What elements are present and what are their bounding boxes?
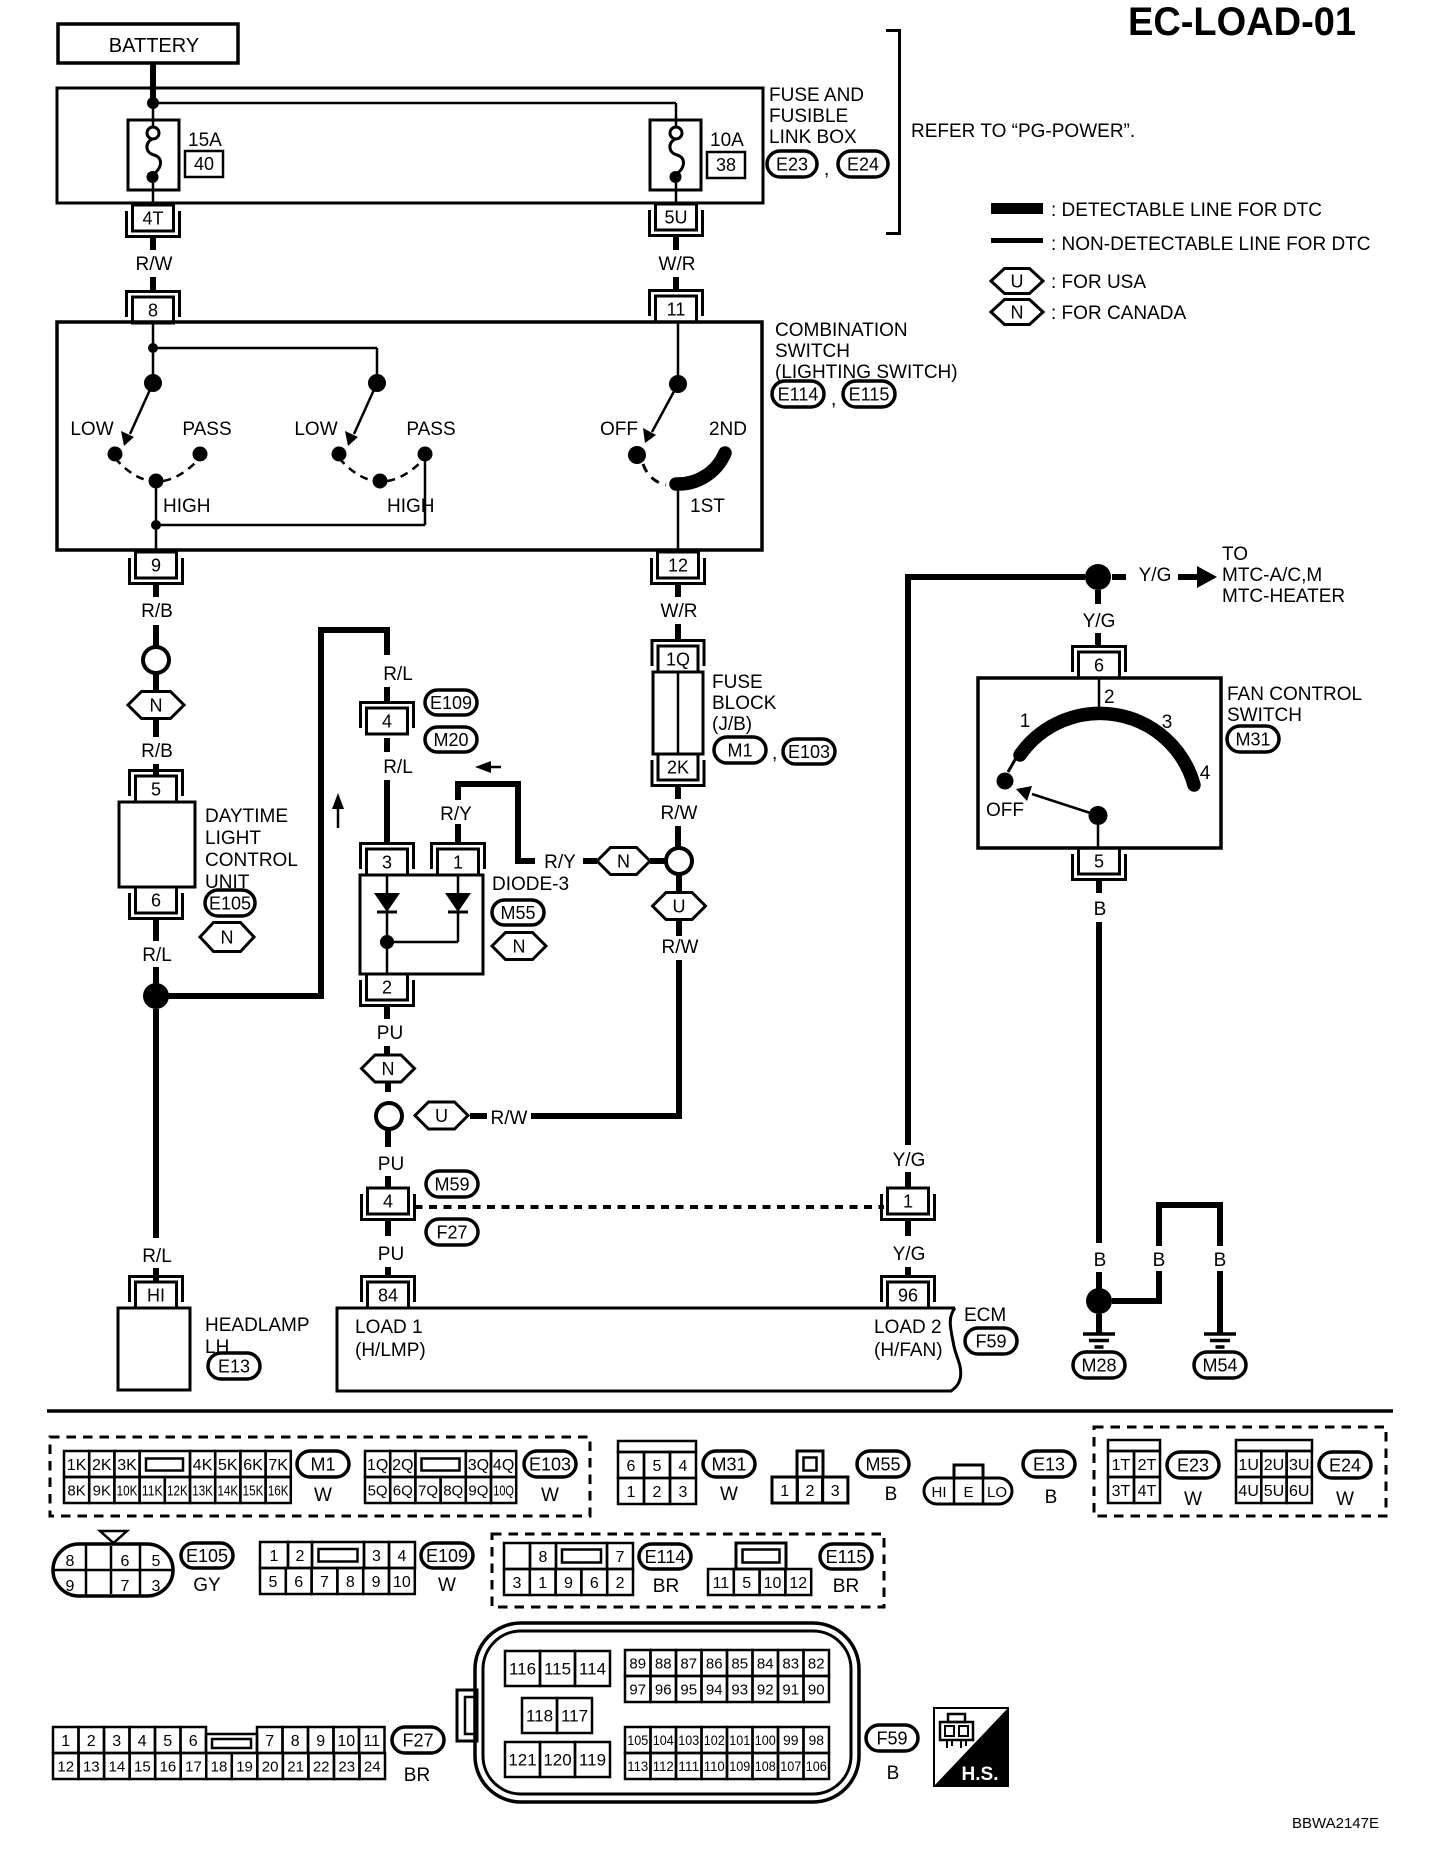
switch 1 arm arrow <box>121 383 153 446</box>
label PASS 1 <box>182 419 231 440</box>
svg-text:6K: 6K <box>243 1457 263 1474</box>
connector ref E114 face <box>639 1544 691 1597</box>
svg-text:LOW: LOW <box>294 419 337 440</box>
switch 2 HIGH contact <box>373 474 388 489</box>
svg-text:R/W: R/W <box>662 937 699 958</box>
svg-text:8: 8 <box>346 1574 355 1591</box>
label PASS 2 <box>406 419 455 440</box>
pin 4 M20-E109 <box>361 703 414 735</box>
svg-text:2K: 2K <box>92 1457 112 1474</box>
svg-text:12K: 12K <box>167 1482 188 1499</box>
svg-text:3: 3 <box>382 853 392 873</box>
svg-text:4Q: 4Q <box>493 1457 514 1474</box>
svg-text:8: 8 <box>66 1553 75 1570</box>
ground ref M28 <box>1073 1352 1125 1378</box>
connector ref M20 <box>425 727 477 752</box>
svg-text:2: 2 <box>1104 687 1115 708</box>
svg-text:OFF: OFF <box>986 800 1024 821</box>
pin 5 <box>130 771 183 803</box>
connector ref E115 face <box>820 1544 872 1597</box>
svg-text:BLOCK: BLOCK <box>712 693 777 714</box>
wire R/W corner to U hexagon splice <box>470 1108 679 1129</box>
svg-text:105: 105 <box>627 1732 648 1748</box>
wire PU diode pin 2 down <box>377 1006 403 1056</box>
daytime light control unit box <box>119 802 195 887</box>
connector face E109 <box>260 1542 415 1594</box>
label HIGH 1 <box>163 496 211 517</box>
svg-text:85: 85 <box>731 1655 748 1672</box>
connector face F59 ECM <box>457 1623 859 1802</box>
connector ref F59 face <box>866 1725 918 1784</box>
wire R/W down <box>662 920 699 1113</box>
connector face E24 <box>1236 1440 1312 1503</box>
svg-text:BR: BR <box>653 1576 679 1597</box>
svg-text:MTC-HEATER: MTC-HEATER <box>1222 586 1345 607</box>
svg-text:B: B <box>1094 899 1107 920</box>
fuse 10A 38 <box>650 120 701 204</box>
wire R/W 2K to splice <box>661 786 698 850</box>
svg-text:R/L: R/L <box>383 757 413 778</box>
combination switch box <box>57 322 762 550</box>
svg-text:9: 9 <box>66 1578 75 1595</box>
svg-text:4U: 4U <box>1238 1483 1258 1500</box>
svg-text:121: 121 <box>508 1751 536 1770</box>
svg-text:91: 91 <box>782 1681 799 1698</box>
dashed box E23 E24 connectors <box>1094 1427 1386 1516</box>
svg-text:118: 118 <box>526 1707 553 1726</box>
svg-text:10: 10 <box>764 1575 782 1592</box>
node R/L junction <box>143 983 169 1009</box>
label 3 <box>1162 712 1173 733</box>
diode right <box>445 875 471 942</box>
svg-text:17: 17 <box>185 1758 202 1775</box>
svg-text:E109: E109 <box>426 1546 468 1566</box>
connector ref E105 <box>205 890 255 916</box>
wire Y/G pin 1 to pin 96 <box>893 1220 926 1278</box>
label fuse and fusible link box <box>769 85 864 148</box>
svg-text:4T: 4T <box>1138 1483 1157 1500</box>
connector face E13 headlamp <box>924 1465 1012 1504</box>
svg-text:109: 109 <box>729 1758 750 1774</box>
connector ref E13 face <box>1023 1451 1075 1508</box>
connector ref E24 face <box>1319 1452 1371 1510</box>
dashed box E114 E115 connectors <box>492 1534 884 1607</box>
svg-text:R/Y: R/Y <box>440 804 472 825</box>
bracket refer to PG-POWER <box>886 31 900 234</box>
svg-text:6: 6 <box>151 891 161 911</box>
svg-text:13: 13 <box>83 1758 100 1775</box>
svg-text:,: , <box>824 159 829 180</box>
svg-text:23: 23 <box>338 1758 355 1775</box>
svg-text:6U: 6U <box>1289 1483 1309 1500</box>
svg-text:97: 97 <box>629 1681 646 1698</box>
svg-text:U: U <box>673 897 686 917</box>
svg-text:6: 6 <box>590 1575 599 1592</box>
svg-text:2K: 2K <box>667 758 689 778</box>
svg-text:2: 2 <box>87 1733 96 1750</box>
svg-text:M54: M54 <box>1202 1356 1237 1376</box>
lighting switch OFF contact <box>628 446 646 464</box>
svg-text:92: 92 <box>757 1681 774 1698</box>
legend for USA text <box>1051 272 1146 293</box>
connector ref E103 face <box>524 1451 576 1506</box>
svg-text:103: 103 <box>678 1732 699 1748</box>
svg-text:2Q: 2Q <box>392 1457 413 1474</box>
node Y/G junction <box>1085 564 1111 590</box>
pin 8 <box>127 292 180 324</box>
svg-text:,: , <box>831 389 836 410</box>
switch 2 arm arrow <box>345 383 377 446</box>
svg-text:Y/G: Y/G <box>893 1150 926 1171</box>
label HIGH 2 <box>387 496 435 517</box>
connector ref M55 face <box>857 1451 909 1505</box>
wire splice to U hexagon <box>676 874 682 892</box>
svg-text:11K: 11K <box>142 1482 163 1499</box>
svg-text:HI: HI <box>147 1286 165 1306</box>
svg-text:M1: M1 <box>727 741 752 761</box>
svg-text:(H/FAN): (H/FAN) <box>874 1340 943 1361</box>
connector ref M55 <box>492 900 544 925</box>
svg-text:1: 1 <box>538 1575 547 1592</box>
connector ref E23 face <box>1167 1452 1219 1510</box>
svg-text:2ND: 2ND <box>709 419 747 440</box>
svg-text:84: 84 <box>757 1655 774 1672</box>
node battery feed junction <box>147 97 159 109</box>
svg-text:2: 2 <box>805 1483 814 1500</box>
connector ref E109 face <box>421 1543 473 1596</box>
wire HIGH to pin 9 <box>155 481 158 552</box>
svg-text:W/R: W/R <box>661 601 698 622</box>
diode-3 box M55 <box>360 875 483 974</box>
hexagon U usa R/W <box>653 893 706 920</box>
splice R/W R/Y <box>666 848 692 874</box>
svg-text:CONTROL: CONTROL <box>205 850 298 871</box>
wire splice to N <box>153 674 159 691</box>
svg-text:PU: PU <box>378 1154 404 1175</box>
connector ref E24 <box>824 151 888 180</box>
svg-text:R/B: R/B <box>141 741 173 762</box>
svg-text:E13: E13 <box>1033 1455 1065 1475</box>
svg-text:22: 22 <box>313 1758 330 1775</box>
pin 6 fan switch <box>1073 647 1126 679</box>
svg-text:W: W <box>720 1484 738 1505</box>
svg-text:113: 113 <box>627 1758 648 1774</box>
connector face M31 <box>618 1441 696 1504</box>
svg-text:1: 1 <box>627 1484 636 1501</box>
svg-text:F27: F27 <box>402 1731 433 1751</box>
svg-text:EC-LOAD-01: EC-LOAD-01 <box>1128 0 1356 44</box>
label DIODE-3 <box>492 874 569 895</box>
node high junction <box>151 520 161 530</box>
svg-text:9K: 9K <box>93 1482 111 1499</box>
svg-text:99: 99 <box>783 1732 799 1748</box>
label 1ST <box>690 496 725 517</box>
pin 6 <box>130 887 183 919</box>
svg-text:2: 2 <box>616 1575 625 1592</box>
connector face E103 <box>365 1451 516 1503</box>
svg-text:107: 107 <box>780 1758 801 1774</box>
label 38 <box>707 152 745 178</box>
connector ref E103 <box>772 739 835 764</box>
svg-text:16K: 16K <box>268 1482 289 1499</box>
svg-text:89: 89 <box>629 1655 646 1672</box>
svg-text:24: 24 <box>364 1758 381 1775</box>
svg-text:N: N <box>617 852 630 872</box>
connector face M1 <box>64 1451 291 1503</box>
connector ref E23 <box>767 151 817 177</box>
svg-text:H.S.: H.S. <box>962 1764 999 1785</box>
svg-text:115: 115 <box>544 1660 571 1679</box>
wire R/B pin 9 to splice <box>141 584 173 647</box>
svg-text:: FOR CANADA: : FOR CANADA <box>1051 303 1186 324</box>
fan switch contact arc <box>1020 713 1194 785</box>
connector ref M31 <box>1227 726 1279 752</box>
switch 2 wiper arc <box>339 458 425 482</box>
svg-text:101: 101 <box>729 1732 750 1748</box>
svg-text:OFF: OFF <box>600 419 638 440</box>
svg-text:94: 94 <box>706 1681 723 1698</box>
svg-text:9: 9 <box>316 1733 325 1750</box>
svg-text:6Q: 6Q <box>393 1482 413 1499</box>
svg-text:2: 2 <box>382 978 392 998</box>
value 10A <box>710 130 744 151</box>
svg-text:E24: E24 <box>1329 1456 1361 1476</box>
hexagon N canada R/B <box>128 692 184 719</box>
svg-text:1: 1 <box>453 853 463 873</box>
wire R/W 4T to 8 <box>136 237 173 293</box>
svg-text:2T: 2T <box>1138 1457 1157 1474</box>
svg-text:7Q: 7Q <box>418 1482 438 1499</box>
svg-text:M55: M55 <box>865 1455 900 1475</box>
svg-text:1Q: 1Q <box>666 650 690 670</box>
svg-text:116: 116 <box>509 1660 536 1679</box>
svg-text:83: 83 <box>782 1655 799 1672</box>
svg-text:R/W: R/W <box>491 1108 528 1129</box>
svg-text:R/L: R/L <box>142 1246 172 1267</box>
label headlamp LH <box>205 1315 310 1358</box>
svg-text:DIODE-3: DIODE-3 <box>492 874 569 895</box>
dashed Y/G to arrow <box>1112 565 1198 586</box>
label fuse block J/B <box>712 672 777 735</box>
label combination switch <box>775 320 958 383</box>
svg-text:M28: M28 <box>1081 1356 1116 1376</box>
svg-text:PU: PU <box>378 1244 404 1265</box>
pin 1 Y/G <box>882 1188 935 1220</box>
svg-text:E114: E114 <box>645 1547 686 1567</box>
svg-text:16: 16 <box>160 1758 177 1775</box>
svg-text:LO: LO <box>987 1484 1007 1501</box>
node switch feed junction <box>148 343 158 353</box>
svg-text:Y/G: Y/G <box>1139 565 1172 586</box>
label ECM <box>964 1305 1006 1326</box>
svg-text:LIGHT: LIGHT <box>205 828 261 849</box>
svg-text:10A: 10A <box>710 130 744 151</box>
wire R/L pin 6 to junction <box>142 919 172 990</box>
svg-text:B: B <box>1153 1250 1166 1271</box>
svg-text:8Q: 8Q <box>443 1482 463 1499</box>
svg-text:E23: E23 <box>1177 1456 1209 1476</box>
svg-text:15K: 15K <box>243 1482 264 1499</box>
label LOW 2 <box>294 419 337 440</box>
label 40 <box>185 151 223 177</box>
svg-text:1: 1 <box>780 1483 789 1500</box>
wire R/B N to pin 5 <box>141 720 173 777</box>
svg-text:2: 2 <box>296 1548 305 1565</box>
svg-text:4: 4 <box>383 1192 393 1212</box>
fan OFF contact <box>997 773 1014 790</box>
legend detectable text <box>1051 200 1322 221</box>
svg-text:1: 1 <box>61 1733 70 1750</box>
label LOAD 2 H/FAN <box>874 1317 943 1361</box>
svg-text:100: 100 <box>755 1732 776 1748</box>
harness view H.S. mark <box>934 1708 1008 1786</box>
svg-text:98: 98 <box>808 1732 824 1748</box>
svg-text:: DETECTABLE LINE FOR DTC: : DETECTABLE LINE FOR DTC <box>1051 200 1322 221</box>
hexagon N canada R/Y <box>597 848 650 875</box>
svg-text:R/W: R/W <box>136 254 173 275</box>
svg-text:N: N <box>1011 303 1024 323</box>
svg-text:110: 110 <box>704 1758 725 1774</box>
svg-text:7: 7 <box>265 1733 274 1750</box>
hexagon U usa splice <box>415 1102 468 1129</box>
pin HI <box>130 1277 183 1309</box>
hexagon N canada M55 <box>492 933 546 960</box>
svg-text:GY: GY <box>193 1575 221 1596</box>
dashed box M1 E103 connectors <box>50 1437 590 1516</box>
svg-text:4: 4 <box>679 1458 688 1475</box>
wire W/R pin 12 to fuse block <box>661 584 698 642</box>
svg-text:3K: 3K <box>117 1457 137 1474</box>
svg-text:B: B <box>1214 1250 1227 1271</box>
wire Y/G down to pin 1 <box>893 577 926 1188</box>
svg-text:13K: 13K <box>192 1482 213 1499</box>
svg-text:4: 4 <box>138 1733 147 1750</box>
svg-text:5K: 5K <box>218 1457 238 1474</box>
svg-text:Y/G: Y/G <box>1083 611 1116 632</box>
pin 9 <box>130 552 183 584</box>
svg-text:11: 11 <box>713 1575 730 1592</box>
svg-text:DAYTIME: DAYTIME <box>205 806 288 827</box>
svg-text:W: W <box>541 1485 559 1506</box>
direction arrow up <box>332 793 344 828</box>
svg-text:5: 5 <box>653 1458 662 1475</box>
svg-text:Y/G: Y/G <box>893 1244 926 1265</box>
svg-text:PASS: PASS <box>406 419 455 440</box>
svg-text:96: 96 <box>655 1681 672 1698</box>
svg-text:LOAD 1: LOAD 1 <box>355 1317 423 1338</box>
svg-text:87: 87 <box>680 1655 697 1672</box>
pin 2 diode <box>361 974 414 1006</box>
svg-text:SWITCH: SWITCH <box>775 341 850 362</box>
connector ref E105 face <box>181 1543 233 1596</box>
svg-text:F59: F59 <box>975 1332 1006 1352</box>
svg-text:3: 3 <box>152 1578 161 1595</box>
pin 5 fan switch <box>1073 848 1126 880</box>
wire R/Y to N hexagon <box>515 852 597 873</box>
svg-text:FUSE AND: FUSE AND <box>769 85 864 106</box>
wire pole to pin 5 <box>1097 825 1100 848</box>
svg-text:7K: 7K <box>268 1457 288 1474</box>
svg-text:W: W <box>1184 1489 1202 1510</box>
svg-text:3: 3 <box>831 1483 840 1500</box>
svg-text:LINK BOX: LINK BOX <box>769 127 857 148</box>
fusible link 15A 40 <box>128 109 179 205</box>
svg-text:3: 3 <box>1162 712 1173 733</box>
svg-text:3: 3 <box>372 1548 381 1565</box>
wire Y/G fan to junction corner <box>908 577 1085 580</box>
wire R/Y corner <box>458 784 518 858</box>
svg-text:1U: 1U <box>1238 1457 1258 1474</box>
connector face E23 <box>1108 1440 1160 1503</box>
svg-text:SWITCH: SWITCH <box>1227 705 1302 726</box>
dashed link pin 4 to pin 1 <box>415 1205 885 1209</box>
connector face E114 <box>504 1543 633 1595</box>
svg-text:4K: 4K <box>193 1457 213 1474</box>
svg-text:E103: E103 <box>788 742 830 762</box>
label OFF <box>600 419 638 440</box>
label LOW 1 <box>70 419 113 440</box>
svg-text:2: 2 <box>653 1484 662 1501</box>
legend non-detectable text <box>1051 234 1371 255</box>
svg-text:3: 3 <box>679 1484 688 1501</box>
ECM load box <box>337 1308 961 1391</box>
wire N to splice <box>650 858 666 864</box>
svg-text:10: 10 <box>337 1733 355 1750</box>
wire junction to switch 2 <box>153 348 377 383</box>
connector ref E109 <box>425 690 477 715</box>
svg-text:14K: 14K <box>217 1482 238 1499</box>
svg-text:1: 1 <box>270 1548 279 1565</box>
svg-text:40: 40 <box>194 154 214 174</box>
svg-text:FUSIBLE: FUSIBLE <box>769 106 848 127</box>
hexagon N canada E105 <box>200 923 254 952</box>
svg-text:6: 6 <box>189 1733 198 1750</box>
svg-text:W: W <box>314 1485 332 1506</box>
svg-text:M59: M59 <box>434 1175 469 1195</box>
svg-text:7: 7 <box>616 1549 625 1566</box>
svg-text:E115: E115 <box>849 385 890 405</box>
fuse and fusible link box <box>57 88 763 203</box>
wire R/L branch to diode <box>162 630 387 996</box>
svg-text:F27: F27 <box>436 1223 467 1243</box>
svg-text:86: 86 <box>706 1655 723 1672</box>
svg-text:PU: PU <box>377 1023 403 1044</box>
svg-text:M31: M31 <box>1235 730 1270 750</box>
pin 12 <box>652 552 705 584</box>
svg-text:8: 8 <box>539 1549 548 1566</box>
label fan control switch <box>1227 684 1362 726</box>
switch 1 HIGH contact <box>149 474 164 489</box>
label TO MTC <box>1222 544 1345 607</box>
wire junction to fuse 38 <box>153 103 676 127</box>
svg-text:4: 4 <box>398 1548 407 1565</box>
svg-text:E109: E109 <box>430 693 472 713</box>
svg-text:18: 18 <box>211 1758 228 1775</box>
connector ref M1 face <box>297 1451 349 1506</box>
connector ref M1 <box>714 737 766 763</box>
svg-text:111: 111 <box>678 1758 699 1774</box>
switch 1 PASS contact <box>193 447 208 462</box>
svg-text:W/R: W/R <box>659 254 696 275</box>
svg-text:E114: E114 <box>778 385 819 405</box>
svg-text:11: 11 <box>667 300 686 320</box>
svg-text:HEADLAMP: HEADLAMP <box>205 1315 310 1336</box>
title EC-LOAD-01 <box>1128 0 1356 44</box>
svg-text:10Q: 10Q <box>493 1482 514 1499</box>
svg-text:REFER TO “PG-POWER”.: REFER TO “PG-POWER”. <box>911 121 1135 142</box>
wire R/L to pin 4 <box>384 687 390 702</box>
hexagon N canada PU <box>362 1055 415 1082</box>
